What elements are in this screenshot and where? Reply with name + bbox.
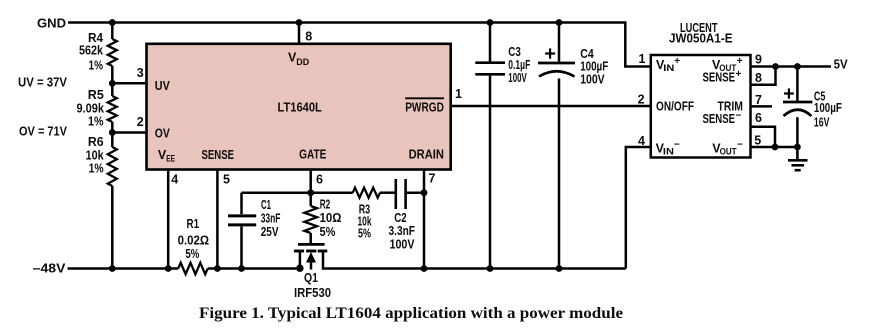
svg-text:OV = 71V: OV = 71V xyxy=(19,124,68,138)
svg-text:6: 6 xyxy=(755,111,762,125)
svg-text:+: + xyxy=(736,69,742,80)
svg-text:100µF: 100µF xyxy=(814,101,842,115)
svg-text:1: 1 xyxy=(455,87,462,101)
svg-text:5: 5 xyxy=(754,134,761,148)
ground symbol xyxy=(788,147,808,170)
svg-text:UV = 37V: UV = 37V xyxy=(18,76,68,90)
svg-text:100V: 100V xyxy=(580,73,605,87)
resistor R2 xyxy=(304,206,317,233)
svg-text:C3: C3 xyxy=(508,45,521,59)
wire -48V rail right segment xyxy=(208,267,303,270)
svg-text:–48V: –48V xyxy=(33,261,67,275)
resistor R3 xyxy=(353,188,380,198)
wire R4 top lead xyxy=(111,23,114,40)
svg-text:IRF530: IRF530 xyxy=(294,286,331,300)
node pin5-C5 junction xyxy=(794,144,801,151)
node 5V-pin8 junction xyxy=(772,63,779,70)
resistor R2 value label xyxy=(320,198,342,239)
wire GATE pin 6 xyxy=(309,170,312,193)
svg-text:Q1: Q1 xyxy=(304,271,318,285)
svg-text:C1: C1 xyxy=(261,198,271,212)
wire -48V rail left segment xyxy=(68,267,179,270)
svg-text:3: 3 xyxy=(137,66,144,80)
wire module pin 6 stub xyxy=(751,127,776,147)
svg-text:6: 6 xyxy=(316,172,323,186)
wire R2 top lead xyxy=(309,193,312,206)
module pin VIN+ label xyxy=(656,56,680,74)
wire R5 bottom lead xyxy=(111,122,114,133)
wire C3 top lead xyxy=(489,23,492,62)
module pin SENSE- label xyxy=(703,110,742,126)
svg-text:2: 2 xyxy=(137,115,144,129)
node drain-C3 junction xyxy=(487,265,494,272)
pin VEE label xyxy=(158,148,175,165)
wire C5 bottom lead xyxy=(796,117,799,147)
wire UV pin 3 xyxy=(112,82,146,85)
node rail-VEE junction xyxy=(165,265,172,272)
svg-text:IN: IN xyxy=(663,147,674,158)
capacitor C3 value label xyxy=(508,45,530,85)
op-amp U1 LT1640L body xyxy=(147,44,451,170)
svg-text:1%: 1% xyxy=(89,59,104,73)
node rail-SENSE junction xyxy=(214,265,221,272)
svg-text:JW050A1-E: JW050A1-E xyxy=(669,31,733,45)
capacitor C1 value label xyxy=(261,198,281,239)
svg-text:7: 7 xyxy=(429,172,436,186)
svg-text:SENSE: SENSE xyxy=(703,112,736,126)
svg-text:DRAIN: DRAIN xyxy=(409,147,444,161)
node OV junction xyxy=(109,129,116,136)
transistor Q1 source lead xyxy=(299,251,302,269)
transistor Q1 body arrow shaft xyxy=(310,259,313,270)
capacitor C3 xyxy=(475,63,505,75)
wire R5 top lead xyxy=(111,83,114,96)
svg-text:OUT: OUT xyxy=(720,147,737,158)
svg-text:0.02Ω: 0.02Ω xyxy=(178,234,209,248)
svg-text:5%: 5% xyxy=(320,225,336,239)
module pin VOUT+ label xyxy=(712,56,743,74)
svg-text:16V: 16V xyxy=(814,116,830,130)
svg-text:100V: 100V xyxy=(390,238,416,252)
capacitor C2 value label xyxy=(389,211,416,252)
module pin VOUT- label xyxy=(712,139,743,157)
wire OV pin 2 xyxy=(112,131,146,134)
svg-text:PWRGD: PWRGD xyxy=(405,101,444,115)
capacitor C5 polarity plus xyxy=(784,88,794,98)
wire C3 bottom lead xyxy=(489,76,492,269)
svg-text:100V: 100V xyxy=(508,71,527,85)
svg-text:GATE: GATE xyxy=(299,147,326,161)
svg-text:LT1640L: LT1640L xyxy=(278,100,323,114)
resistor R1 xyxy=(178,263,208,274)
node GND-pin8 junction xyxy=(296,19,303,26)
transistor Q1 gate bar xyxy=(298,243,325,246)
wire module VIN- pin 4 xyxy=(626,147,651,269)
svg-text:100µF: 100µF xyxy=(580,60,608,74)
wire gate node left segment xyxy=(242,191,353,194)
capacitor C4 xyxy=(538,63,575,77)
svg-text:10Ω: 10Ω xyxy=(320,211,342,225)
svg-text:R2: R2 xyxy=(320,198,331,212)
power module JW050A1-E body xyxy=(651,55,751,158)
node GND-R4 junction xyxy=(109,19,116,26)
wire module pin 9 to 5V xyxy=(751,65,832,68)
resistor R6 value label xyxy=(86,135,104,175)
svg-text:Figure 1. Typical LT1604 appli: Figure 1. Typical LT1604 application wit… xyxy=(199,305,623,322)
capacitor C5 value label xyxy=(814,89,842,129)
svg-text:EE: EE xyxy=(166,154,175,165)
wire C4 bottom lead xyxy=(558,79,561,269)
svg-text:33nF: 33nF xyxy=(261,212,281,226)
wire C4 top lead xyxy=(558,23,561,62)
capacitor C5 xyxy=(783,102,812,116)
wire R2 to Q1 gate xyxy=(309,233,312,244)
svg-text:8: 8 xyxy=(755,71,762,85)
svg-text:GND: GND xyxy=(37,17,66,31)
svg-text:5%: 5% xyxy=(358,226,371,240)
svg-text:−: − xyxy=(736,110,742,121)
svg-text:1%: 1% xyxy=(88,115,104,129)
transistor Q1 channel bar xyxy=(294,250,327,253)
svg-text:25V: 25V xyxy=(261,225,279,239)
svg-text:R6: R6 xyxy=(88,135,104,149)
svg-text:5: 5 xyxy=(223,172,230,186)
node GND-C4 junction xyxy=(556,19,563,26)
wire module pin 7 TRIM stub xyxy=(751,105,773,108)
wire VDD pin 8 xyxy=(298,23,301,45)
wire R6 top lead xyxy=(111,133,114,148)
svg-text:562k: 562k xyxy=(79,44,103,58)
svg-text:DD: DD xyxy=(296,57,309,68)
svg-text:7: 7 xyxy=(755,93,762,107)
wire module pin 5 to C5 xyxy=(751,146,798,149)
wire C1 bottom lead xyxy=(240,227,243,269)
svg-text:8: 8 xyxy=(305,30,312,44)
svg-text:1%: 1% xyxy=(89,161,104,175)
svg-text:−: − xyxy=(737,139,743,150)
svg-text:9.09k: 9.09k xyxy=(77,102,105,116)
transistor Q1 reference label xyxy=(294,271,331,300)
wire C2 to pin 7 xyxy=(407,191,424,194)
module pin SENSE+ label xyxy=(703,69,742,85)
wire module pin 8 stub xyxy=(751,67,776,85)
svg-text:5V: 5V xyxy=(834,57,849,71)
node C2-pin7 junction xyxy=(421,189,428,196)
svg-text:SENSE: SENSE xyxy=(202,148,235,162)
capacitor C4 polarity plus xyxy=(545,48,555,58)
svg-text:9: 9 xyxy=(755,53,762,67)
resistor R6 xyxy=(108,147,117,186)
svg-text:+: + xyxy=(674,56,680,67)
wire C1 top lead xyxy=(240,193,243,215)
wire VEE pin 4 xyxy=(167,170,170,269)
svg-text:OV: OV xyxy=(155,126,171,140)
svg-text:0.1µF: 0.1µF xyxy=(508,58,530,72)
node UV junction xyxy=(109,80,116,87)
svg-text:IN: IN xyxy=(663,63,674,74)
node rail-R6 junction xyxy=(109,265,116,272)
svg-text:1: 1 xyxy=(639,52,646,66)
module pin VIN- label xyxy=(656,139,680,157)
svg-text:4: 4 xyxy=(171,172,178,186)
svg-text:+: + xyxy=(737,56,743,67)
svg-text:−: − xyxy=(674,139,680,150)
power module manufacturer label xyxy=(669,21,733,46)
svg-text:R1: R1 xyxy=(187,217,200,231)
svg-text:SENSE: SENSE xyxy=(703,70,736,84)
wire GND top rail xyxy=(68,23,651,67)
transistor Q1 body arrowhead xyxy=(306,252,316,263)
resistor R5 xyxy=(108,96,117,122)
capacitor C2 xyxy=(396,179,406,209)
node pin5-pin6 junction xyxy=(772,144,779,151)
svg-text:10k: 10k xyxy=(86,148,104,162)
svg-text:R5: R5 xyxy=(88,88,104,102)
transistor Q1 drain lead xyxy=(323,251,626,269)
wire R3 to C2 xyxy=(380,191,395,194)
capacitor C4 value label xyxy=(580,47,608,87)
capacitor C1 xyxy=(228,216,256,225)
node 5V-C5 junction xyxy=(794,63,801,70)
pin PWRGD label xyxy=(405,98,444,114)
svg-text:5%: 5% xyxy=(185,247,199,261)
node rail-C1 junction xyxy=(238,265,245,272)
wire R6 to -48V rail xyxy=(111,186,114,269)
wire R4 bottom lead xyxy=(111,66,114,83)
resistor R3 value label xyxy=(358,202,372,240)
node GND-C3 junction xyxy=(487,19,494,26)
svg-text:4: 4 xyxy=(638,134,645,148)
resistor R5 value label xyxy=(77,88,105,129)
node drain-C4 junction xyxy=(556,265,563,272)
wire PWRGD to ON/OFF xyxy=(451,105,651,108)
svg-text:2: 2 xyxy=(638,93,645,107)
resistor R4 xyxy=(108,39,117,66)
svg-text:ON/OFF: ON/OFF xyxy=(656,100,694,114)
node drain-pin7 junction xyxy=(421,265,428,272)
node Q1 source junction xyxy=(296,265,303,272)
resistor R4 value label xyxy=(79,31,103,73)
resistor R1 value label xyxy=(178,217,209,261)
pin VDD label xyxy=(288,51,309,68)
wire SENSE pin 5 xyxy=(216,170,219,269)
svg-text:3.3nF: 3.3nF xyxy=(389,224,416,238)
node gate-R2 junction xyxy=(307,189,314,196)
svg-text:UV: UV xyxy=(155,79,171,93)
wire C5 top lead xyxy=(796,67,799,101)
wire DRAIN pin 7 xyxy=(423,170,426,269)
